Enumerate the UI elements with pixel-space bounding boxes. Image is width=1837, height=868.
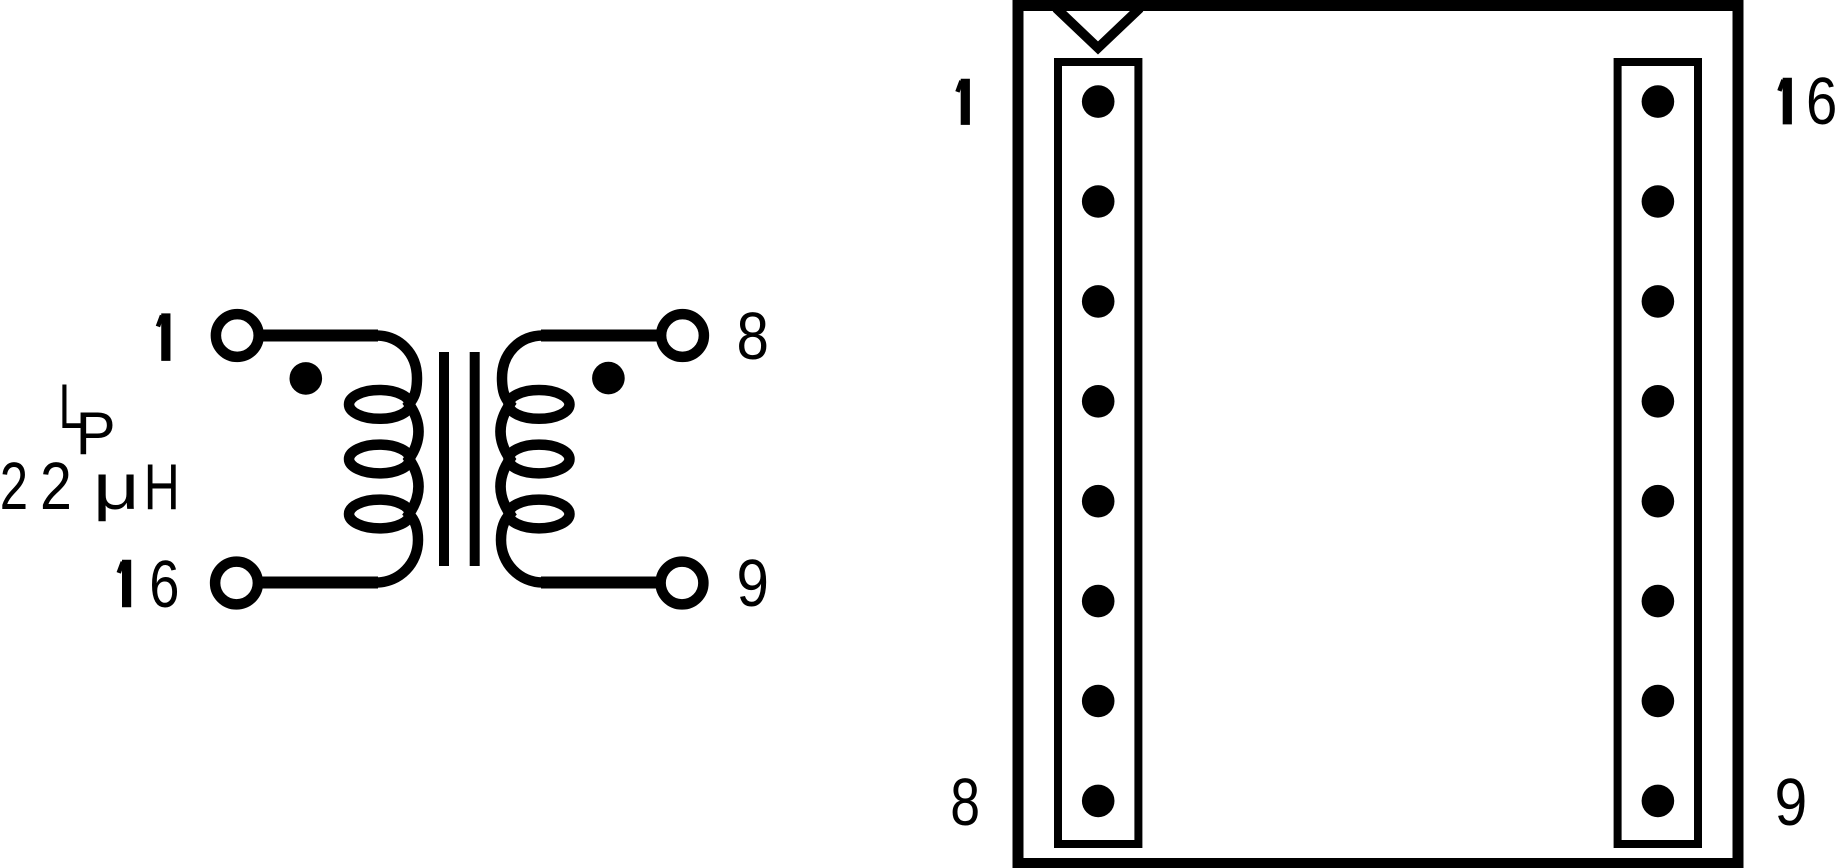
transformer core line left (439, 352, 449, 566)
wire pin 1 lead (258, 330, 378, 342)
primary loop 1 (349, 390, 410, 419)
right column pads pins 9-16 (1642, 85, 1675, 817)
package outline (1018, 6, 1738, 864)
primary polarity dot (290, 362, 323, 395)
right pin column (1618, 62, 1698, 844)
left pin column (1058, 62, 1138, 844)
svg-text:6: 6 (1806, 64, 1837, 139)
svg-text:8: 8 (950, 764, 980, 839)
pin 1 orientation notch (1056, 8, 1140, 48)
pin 8 label (736, 299, 768, 374)
wire pin 9 lead (541, 577, 661, 589)
transformer secondary winding (501, 336, 544, 583)
transformer primary winding Lp (376, 336, 419, 583)
package pin 9 label (1775, 766, 1808, 840)
svg-text:9: 9 (736, 546, 768, 621)
wire pin 8 lead (541, 330, 661, 342)
svg-text:μ: μ (93, 450, 140, 523)
transformer core line right (470, 352, 480, 566)
secondary loop 2 (509, 445, 570, 474)
pin 1 label (158, 313, 166, 361)
svg-text:2: 2 (40, 450, 72, 524)
package pin 16 label (1779, 78, 1787, 125)
svg-text:9: 9 (1775, 766, 1808, 840)
svg-text:H: H (144, 452, 180, 524)
pin 9 label (736, 546, 768, 621)
value label 22 uH (0, 448, 28, 523)
terminal pin 1 (216, 314, 259, 357)
left column pads pins 1-8 (1082, 85, 1115, 817)
primary loop 3 (349, 500, 410, 529)
wire pin 16 lead (257, 577, 378, 589)
primary loop 2 (349, 445, 410, 474)
secondary polarity dot (592, 362, 625, 395)
svg-text:8: 8 (736, 299, 768, 374)
terminal pin 9 (661, 562, 704, 605)
terminal pin 16 (215, 562, 258, 605)
svg-text:6: 6 (149, 547, 179, 622)
secondary loop 1 (509, 390, 570, 419)
secondary loop 3 (509, 500, 570, 529)
terminal pin 8 (661, 314, 704, 357)
inductance label L (59, 371, 84, 442)
package pin 1 label (957, 79, 965, 125)
package pin 8 label (950, 764, 980, 839)
svg-text:2: 2 (0, 448, 28, 523)
pin 16 label (119, 560, 127, 608)
